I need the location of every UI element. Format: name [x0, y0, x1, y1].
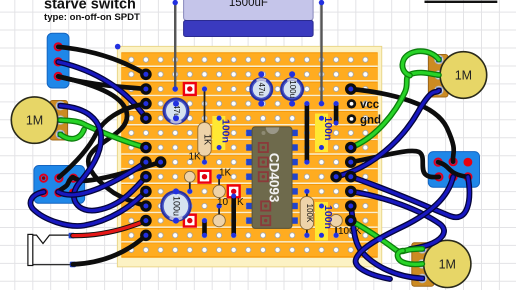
- wire SW2 top-right to bottom-mid squiggle: [58, 177, 73, 192]
- jack J5 tip terminal: [69, 233, 75, 239]
- node gnd terminal: [347, 114, 381, 126]
- svg-text:1M: 1M: [26, 114, 43, 128]
- svg-text:100u: 100u: [288, 80, 297, 98]
- IC U1 CD4093 body: [252, 127, 292, 228]
- wire VR1 pin2 to board row6 (green): [60, 120, 146, 147]
- wire board row3 to SW2 top-mid: [59, 104, 146, 178]
- wire VR1 pin3 green loop: [60, 130, 84, 139]
- resistor R6 100K (vertical mount): [330, 214, 342, 237]
- svg-text:gnd: gnd: [360, 114, 381, 126]
- wire jack sleeve to board row12: [73, 235, 146, 264]
- node: C5 negative lead top: [319, 0, 324, 5]
- IC U1 pins right: [292, 130, 298, 224]
- jack J5 sleeve terminal: [70, 262, 76, 268]
- capacitor C5 1500uF leads: [175, 3, 321, 104]
- capacitor C8 47u: [249, 71, 273, 106]
- op-amp / IC U1 CD4093 pins left: [246, 130, 252, 224]
- svg-text:100n: 100n: [219, 119, 231, 143]
- svg-text:K: K: [237, 197, 244, 208]
- wire board row9 arc to bundle: [351, 191, 444, 249]
- svg-text:100n: 100n: [322, 205, 334, 229]
- wire board row11 to VR3 pin1 (green): [351, 221, 423, 252]
- trace cut marker 4: [184, 215, 196, 227]
- capacitor C7 100u: [160, 188, 192, 223]
- wire VR2 pin1 green loop: [402, 51, 439, 75]
- mono jack J5: [28, 234, 73, 265]
- svg-text:1K: 1K: [189, 152, 202, 163]
- svg-text:1K: 1K: [219, 168, 232, 179]
- wire VR3 pin2 green loop: [398, 251, 423, 265]
- wire VR1 pin1 to board row8 (below SW2): [60, 106, 146, 211]
- wire end junctions on board: [140, 69, 357, 242]
- svg-text:CD4093: CD4093: [266, 153, 281, 203]
- wire SW1 pad1 to board row1: [58, 47, 146, 75]
- svg-text:1M: 1M: [455, 69, 472, 83]
- trace cut marker 1: [184, 83, 196, 95]
- resistor R5 100K: [300, 189, 314, 238]
- jumper wire J1: [304, 101, 309, 165]
- node vcc terminal: [347, 99, 380, 111]
- node: C5 lead on board col13 row3: [319, 101, 324, 106]
- potentiometer VR3 1M body: [412, 243, 434, 286]
- resistor R3 1K (vertical mount): [213, 174, 225, 197]
- node: loose wire end top-left of board: [115, 44, 121, 50]
- wire SW2 bottom-left loop to board row9: [30, 191, 145, 226]
- capacitor C5 1500uF body: [184, 0, 314, 37]
- capacitor C9 100u: [280, 71, 304, 106]
- wire SW3 top-left to bottom-right jumper: [438, 162, 468, 177]
- jumper wire J2: [334, 101, 339, 125]
- wire board row8 to SW3 bottom-right: [351, 177, 470, 218]
- svg-text:100u: 100u: [172, 196, 182, 216]
- wire SW3 bottom-mid down to VR3 area: [356, 177, 453, 279]
- svg-text:1500uF: 1500uF: [229, 0, 268, 9]
- potentiometer VR1 1M body: [50, 101, 68, 141]
- trace cut marker 2: [199, 171, 211, 183]
- svg-text:100K: 100K: [305, 204, 314, 223]
- wire SW1 pad2 to board row4: [58, 62, 146, 118]
- capacitor 100n C3: [315, 202, 334, 241]
- svg-text:10: 10: [217, 197, 229, 208]
- capacitor 100n C2: [315, 114, 334, 153]
- wire board row6 to VR2 pin2 (green): [351, 73, 439, 148]
- capacitor C6 47u: [163, 98, 190, 125]
- potentiometer VR2 1M knob: [440, 52, 487, 99]
- resistor R1 1K: [198, 87, 213, 165]
- wire jack tip to board row11 (red): [73, 221, 146, 236]
- edge of off-screen part top-right: [425, 1, 498, 3]
- svg-text:1K: 1K: [203, 134, 213, 145]
- wire SW1 pad3 to board row2: [58, 76, 146, 89]
- node: C5 lead on board col3 row2: [173, 86, 178, 91]
- potentiometer VR1 1M knob: [11, 97, 57, 143]
- resistor R2 1K (vertical mount): [184, 171, 195, 194]
- resistor R4 10K (vertical mount): [213, 204, 225, 227]
- svg-text:type: on-off-on SPDT: type: on-off-on SPDT: [44, 12, 140, 23]
- switch SW3 DPDT right: [428, 152, 479, 188]
- capacitor 100n C1: [212, 116, 231, 150]
- svg-text:1M: 1M: [439, 257, 456, 271]
- wire board col14 row8 to VR2 pin3: [336, 90, 439, 176]
- stripboard: [117, 46, 382, 267]
- svg-text:100n: 100n: [322, 117, 334, 141]
- potentiometer VR2 1M body: [429, 55, 449, 98]
- trace cut marker 3: [228, 186, 240, 198]
- switch SW2 DPDT bottom-left: [34, 166, 85, 204]
- wire board row7 to SW3 bottom-left hook: [351, 151, 439, 177]
- wire SW2 bottom-mid to board row7: [58, 162, 146, 195]
- wire SW1 pad3 to board row10 (long diagonal): [58, 76, 146, 206]
- wire board row10 to VR3 pin3: [351, 206, 423, 278]
- switch SW1 SPDT (starve switch): [47, 33, 69, 88]
- wire board row2 to SW3 top-mid: [351, 89, 454, 162]
- jumper wire J3: [231, 194, 236, 238]
- svg-text:starve switch: starve switch: [44, 0, 136, 13]
- potentiometer VR3 1M knob: [424, 240, 471, 287]
- wire board col2 row7 to SW2 top-right: [73, 162, 161, 181]
- svg-text:vcc: vcc: [360, 99, 380, 111]
- svg-text:47u: 47u: [257, 83, 266, 96]
- jumper wire J4: [202, 218, 207, 238]
- node: loose end bottom-right of board: [377, 237, 382, 242]
- node: C5 positive lead top: [173, 0, 178, 5]
